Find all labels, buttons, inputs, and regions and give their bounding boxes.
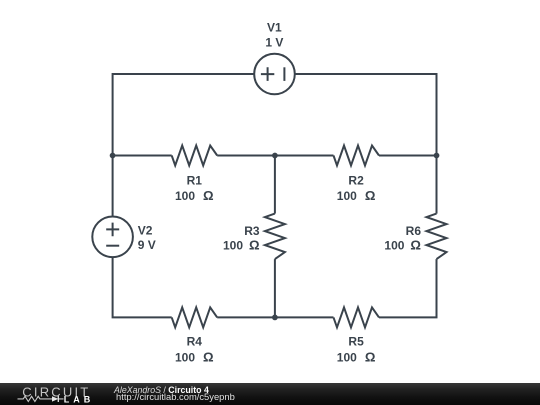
- junction node bottom-center: [272, 315, 278, 321]
- svg-text:V2: V2: [138, 224, 153, 238]
- wire top-left: V2 top to V1 left: [113, 74, 255, 217]
- svg-text:R2: R2: [348, 173, 364, 187]
- svg-text:100Ω: 100Ω: [337, 350, 376, 365]
- junction node mid-left: [110, 153, 116, 159]
- wire center-bottom: R3 bottom to bottom node: [274, 259, 276, 317]
- voltage source V1: [254, 54, 295, 95]
- svg-text:100Ω: 100Ω: [337, 188, 376, 203]
- resistor R2: [334, 146, 380, 166]
- svg-text:R3: R3: [244, 224, 260, 238]
- wire mid-left: left rail to R1 left: [113, 155, 172, 157]
- wire bottom-mid: R4 right to R5 left: [217, 316, 333, 318]
- voltage source V2: [92, 217, 133, 258]
- svg-text:LAB: LAB: [64, 395, 95, 405]
- resistor R1: [172, 146, 218, 166]
- wire mid-right: R2 right to right rail: [379, 155, 437, 157]
- wire center-top: mid node to R3 top: [274, 156, 276, 214]
- svg-text:R6: R6: [406, 224, 422, 238]
- svg-text:R1: R1: [187, 173, 203, 187]
- svg-text:100Ω: 100Ω: [223, 238, 260, 253]
- wire top-right: V1 right to R6 top: [295, 74, 437, 214]
- svg-text:R4: R4: [187, 334, 203, 348]
- svg-text:100Ω: 100Ω: [175, 188, 214, 203]
- svg-text:R5: R5: [348, 334, 364, 348]
- svg-text:100Ω: 100Ω: [175, 350, 214, 365]
- wire right-bottom: R6 bottom to R5 right: [379, 259, 437, 317]
- junction node mid-center: [272, 153, 278, 159]
- svg-text:100Ω: 100Ω: [384, 238, 421, 253]
- junction node mid-right: [434, 153, 440, 159]
- wire bottom-left: V2 bottom to R4 left: [113, 257, 172, 317]
- svg-text:V1: V1: [267, 20, 282, 34]
- svg-text:1 V: 1 V: [265, 35, 283, 49]
- wire mid-center: R1 right to R2 left: [217, 155, 333, 157]
- resistor R5: [334, 307, 380, 327]
- resistor R6: [427, 214, 447, 260]
- svg-text:9 V: 9 V: [138, 238, 156, 252]
- resistor R3: [265, 214, 285, 260]
- resistor R4: [172, 307, 218, 327]
